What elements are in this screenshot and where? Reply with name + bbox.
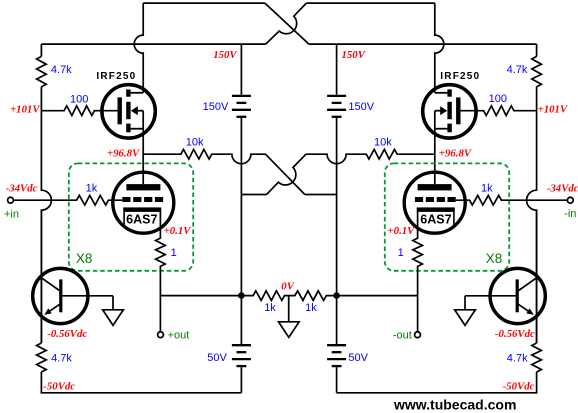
transistor Q2 (right)	[490, 210, 545, 343]
terminal -in	[567, 197, 573, 203]
svg-text:4.7k: 4.7k	[507, 64, 528, 76]
svg-text:4.7k: 4.7k	[51, 64, 72, 76]
svg-text:4.7k: 4.7k	[51, 353, 72, 365]
svg-text:6AS7: 6AS7	[126, 212, 157, 226]
ground symbol (right)	[455, 310, 476, 326]
wire top bus left segment	[143, 2, 265, 4]
node junction right (battery/bottom bus)	[333, 292, 340, 299]
resistor R1 4.7k (top left rail)	[37, 56, 47, 86]
wire + resistor R9 1 (left cathode)	[156, 212, 166, 296]
wire + resistor R6 10k (right) + hop	[306, 149, 435, 163]
svg-text:150V: 150V	[348, 101, 374, 113]
svg-text:IRF250: IRF250	[96, 71, 136, 82]
svg-text:50V: 50V	[348, 352, 368, 364]
svg-text:100: 100	[489, 93, 507, 105]
svg-text:-34Vdc: -34Vdc	[6, 182, 38, 194]
svg-text:1k: 1k	[481, 183, 493, 195]
svg-text:+0.1V: +0.1V	[388, 225, 416, 237]
wire -out drop	[417, 296, 419, 332]
battery B1 150V (left)	[232, 96, 251, 117]
svg-text:X8: X8	[486, 251, 503, 266]
wire lower-mid right segment	[305, 194, 337, 196]
ground symbol (left)	[103, 310, 124, 326]
svg-text:150V: 150V	[203, 101, 229, 113]
svg-text:0V: 0V	[281, 280, 294, 292]
wire bottom bus + resistor R11 1k + resistor R12 1k	[160, 291, 417, 301]
svg-text:X8: X8	[76, 251, 93, 266]
wire second bus right segment	[309, 43, 537, 45]
wire Q2 collector	[465, 295, 516, 297]
wire Q2 collector drop	[464, 296, 466, 310]
svg-text:1k: 1k	[86, 183, 98, 195]
wire battery column left	[240, 44, 242, 296]
terminal +in	[8, 197, 14, 203]
battery B2 150V (right)	[327, 96, 346, 117]
wire lower-mid left segment	[241, 194, 266, 196]
resistor R13 4.7k (bottom left rail)	[37, 343, 47, 372]
svg-text:+96.8V: +96.8V	[107, 147, 140, 159]
wire + resistor R7 1k (left grid input)	[14, 195, 123, 205]
svg-text:IRF250: IRF250	[440, 71, 480, 82]
wire + resistor R5 10k (left) + hop + crossover diagonal A (mid)	[143, 149, 305, 194]
wire 50V battery column right	[336, 296, 338, 393]
wire crossover diagonal B (top) with hop	[266, 3, 307, 44]
svg-text:-50Vdc: -50Vdc	[503, 380, 535, 392]
wire right rail bottom + bottom rail right	[337, 372, 537, 393]
transistor M1 IRF250 (left MOSFET)	[102, 85, 155, 138]
wire left rail bottom + bottom rail left	[41, 372, 241, 393]
wire M2 source to tube plate	[434, 111, 436, 184]
resistor R2 4.7k (top right rail)	[532, 56, 542, 86]
svg-text:6AS7: 6AS7	[420, 212, 451, 226]
ground symbol (center)	[279, 322, 300, 338]
tube V1 6AS7 (left)	[113, 172, 174, 233]
transistor M2 IRF250 (right MOSFET)	[423, 85, 476, 138]
wire battery column right	[336, 44, 338, 296]
svg-text:www.tubecad.com: www.tubecad.com	[393, 397, 516, 413]
svg-text:-out: -out	[393, 330, 412, 342]
svg-text:1k: 1k	[305, 302, 317, 314]
svg-text:-in: -in	[564, 208, 576, 220]
svg-text:1: 1	[171, 247, 177, 259]
annotation box X8 (right, dashed green)	[385, 163, 509, 270]
svg-text:1k: 1k	[264, 302, 276, 314]
wire 50V battery column left	[240, 296, 242, 393]
svg-text:10k: 10k	[186, 137, 204, 149]
node junction left (battery/bottom bus)	[238, 292, 245, 299]
wire + resistor R10 1 (right cathode)	[413, 212, 423, 296]
svg-text:+96.8V: +96.8V	[439, 147, 472, 159]
svg-text:100: 100	[70, 94, 88, 106]
wire drain drop left (hops second bus)	[134, 3, 143, 93]
wire + resistor R3 100 (left gate)	[41, 106, 117, 116]
wire center ground stub	[288, 296, 290, 322]
svg-text:4.7k: 4.7k	[507, 353, 528, 365]
battery B4 50V (right)	[327, 345, 346, 366]
tube V2 6AS7 (right)	[404, 172, 465, 233]
wire +out drop	[159, 296, 161, 332]
wire + resistor R8 1k (right grid input)	[456, 195, 568, 205]
svg-text:+out: +out	[168, 330, 190, 342]
svg-text:150V: 150V	[342, 49, 366, 61]
terminal +out	[158, 332, 164, 338]
svg-text:1: 1	[398, 247, 404, 259]
svg-text:+in: +in	[4, 208, 19, 220]
svg-text:150V: 150V	[213, 49, 237, 61]
terminal -out	[415, 332, 421, 338]
wire + resistor R4 100 (right gate)	[461, 106, 537, 116]
svg-text:+101V: +101V	[10, 103, 40, 115]
wire crossover diagonal A (top)	[265, 3, 309, 44]
svg-text:+0.1V: +0.1V	[164, 225, 192, 237]
wire right rail (hops input wire)	[527, 44, 537, 343]
svg-text:50V: 50V	[207, 352, 227, 364]
wire Q1 collector drop	[112, 296, 114, 310]
battery B3 50V (left)	[232, 345, 251, 366]
wire drain drop right (hops second bus)	[435, 3, 444, 93]
svg-text:-0.56Vdc: -0.56Vdc	[495, 328, 535, 340]
annotation box X8 (left, dashed green)	[69, 163, 193, 270]
wire Q1 collector	[62, 295, 113, 297]
svg-text:-50Vdc: -50Vdc	[43, 380, 75, 392]
wire crossover diagonal B (mid) with hop	[267, 154, 306, 194]
resistor R14 4.7k (bottom right rail)	[532, 343, 542, 372]
wire M1 source to tube plate	[142, 111, 144, 184]
svg-text:-34Vdc: -34Vdc	[547, 182, 578, 194]
svg-text:-0.56Vdc: -0.56Vdc	[47, 328, 87, 340]
svg-text:+101V: +101V	[538, 103, 568, 115]
svg-text:10k: 10k	[374, 137, 392, 149]
wire top bus right segment	[306, 2, 434, 4]
wire second bus left segment	[41, 43, 265, 45]
wire left rail (hops input wire)	[41, 44, 51, 343]
transistor Q1 (left)	[33, 210, 88, 343]
